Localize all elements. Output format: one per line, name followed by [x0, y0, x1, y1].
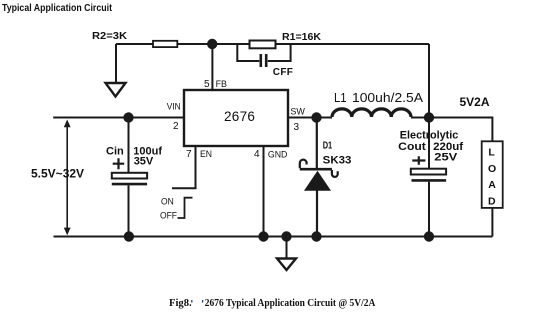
pin SW label — [290, 106, 305, 117]
svg-text:100uh/2.5A: 100uh/2.5A — [352, 91, 424, 105]
label SK33 — [323, 155, 352, 167]
svg-text:4: 4 — [254, 149, 260, 160]
wire Cin top lead — [128, 118, 130, 173]
svg-text:5.5V~32V: 5.5V~32V — [31, 167, 84, 181]
svg-text:SW: SW — [290, 106, 305, 117]
wire D1 cathode lead — [316, 118, 318, 169]
capacitor Cout plates — [411, 169, 446, 181]
svg-text:5: 5 — [204, 79, 210, 90]
svg-text:CFF: CFF — [273, 67, 293, 78]
inductor L1 — [332, 109, 411, 117]
label 2676 — [224, 109, 255, 124]
svg-text:L1: L1 — [334, 90, 347, 105]
pin VIN label — [167, 101, 181, 112]
pin 5 label — [204, 79, 210, 90]
node Cout bottom junction — [424, 231, 434, 241]
label D1 — [323, 140, 333, 151]
svg-text:D: D — [488, 196, 496, 208]
diode D1 schottky bar — [300, 160, 338, 177]
plus sign Cout — [412, 156, 425, 164]
svg-text:Fig8.: Fig8. — [169, 298, 192, 309]
wire top rail (FB node to output corner) — [116, 43, 429, 45]
svg-text:EN: EN — [200, 149, 212, 160]
svg-text:OFF: OFF — [160, 211, 177, 222]
svg-text:FB: FB — [216, 79, 227, 90]
label 25V — [434, 151, 458, 163]
resistor R2 — [153, 41, 177, 47]
pin FB label — [216, 79, 227, 90]
label 5V2A — [460, 95, 490, 109]
input dimension line with arrows — [64, 120, 71, 236]
svg-text:Cin: Cin — [106, 145, 124, 157]
wire R2 drop to ground — [115, 44, 117, 83]
pin 4 label — [254, 149, 260, 160]
LOAD box — [482, 141, 503, 208]
capacitor Cin plates — [112, 173, 147, 184]
wire VIN rail — [53, 117, 184, 119]
resistor R1 — [250, 41, 276, 49]
wire Cin bottom lead — [128, 185, 130, 236]
wire ground stub — [286, 237, 288, 259]
capacitor CFF — [261, 54, 266, 67]
label Electrolytic — [400, 130, 459, 142]
node ground stub junction — [281, 231, 291, 241]
label R2=3K — [92, 30, 127, 42]
wire right drop (top rail to SW/L1 output node) — [428, 44, 430, 118]
svg-text:25V: 25V — [434, 151, 458, 163]
node L1 output junction — [424, 112, 434, 122]
svg-text:Cout: Cout — [398, 141, 426, 153]
wire bottom rail — [54, 236, 493, 238]
wire D1 anode lead — [316, 191, 318, 237]
label 100uf — [133, 145, 162, 157]
plus sign Cin — [113, 158, 125, 169]
ground (top-left, below R2) — [106, 83, 126, 97]
wire GND pin drop — [263, 146, 265, 237]
switch step symbol ON/OFF — [178, 198, 193, 218]
svg-text:5V2A: 5V2A — [460, 95, 490, 109]
svg-text:A: A — [488, 179, 496, 191]
page title — [2, 3, 113, 14]
label CFF — [273, 67, 293, 78]
label Cin — [106, 145, 124, 157]
svg-text:R2=3K: R2=3K — [92, 30, 127, 42]
wire Cout top lead — [428, 118, 430, 169]
wire output to LOAD — [429, 118, 492, 142]
wire L1 right lead — [411, 117, 429, 119]
wire CFF branch — [237, 44, 290, 61]
caption Fig8 — [169, 298, 376, 309]
wire FB drop to pin 5 — [211, 44, 213, 90]
svg-text:3: 3 — [294, 122, 300, 133]
svg-text:2676 Typical Application Circu: 2676 Typical Application Circuit @ 5V/2A — [205, 298, 376, 309]
pin 2 label — [173, 121, 179, 132]
svg-text:ON: ON — [161, 196, 174, 207]
svg-text:R1=16K: R1=16K — [282, 31, 321, 43]
op-amp U1 regulator 2676 box — [184, 90, 288, 146]
node VIN/Cin junction — [123, 112, 133, 122]
svg-text:O: O — [488, 163, 496, 175]
label R1=16K — [282, 31, 321, 43]
svg-text:GND: GND — [268, 150, 288, 161]
pin 7 label — [186, 149, 192, 160]
svg-text:L: L — [488, 146, 495, 158]
svg-text:Electrolytic: Electrolytic — [400, 130, 459, 142]
node FB junction — [207, 39, 217, 49]
label OFF — [160, 211, 177, 222]
pin 3 label — [294, 122, 300, 133]
svg-text:VIN: VIN — [167, 101, 181, 112]
wire SW stub to L1 — [288, 117, 332, 119]
pin EN label — [200, 149, 212, 160]
label ON — [161, 196, 174, 207]
node SW junction — [311, 112, 321, 122]
node Cin bottom junction — [124, 231, 134, 241]
wire Cout bottom lead — [428, 182, 430, 237]
node GND rail junction — [258, 231, 268, 241]
label LOAD letters — [488, 146, 496, 207]
label L1 100uh/2.5A — [334, 90, 424, 105]
svg-text:35V: 35V — [134, 156, 154, 168]
svg-text:7: 7 — [186, 149, 192, 160]
label 5.5V~32V — [31, 167, 84, 181]
wire EN stub — [172, 146, 196, 188]
svg-text:Typical Application Circuit: Typical Application Circuit — [2, 3, 113, 14]
svg-text:SK33: SK33 — [323, 155, 352, 167]
label Cout — [398, 141, 426, 153]
label 220uf — [433, 141, 463, 153]
wire LOAD bottom drop — [491, 208, 493, 237]
node D1 bottom junction — [311, 231, 321, 241]
label 35V — [134, 156, 154, 168]
pin GND label — [268, 150, 288, 161]
svg-text:2676: 2676 — [224, 109, 255, 124]
ground (bottom center) — [277, 259, 296, 271]
svg-text:D1: D1 — [323, 140, 333, 151]
diode D1 triangle — [304, 171, 331, 191]
svg-text:2: 2 — [173, 121, 179, 132]
